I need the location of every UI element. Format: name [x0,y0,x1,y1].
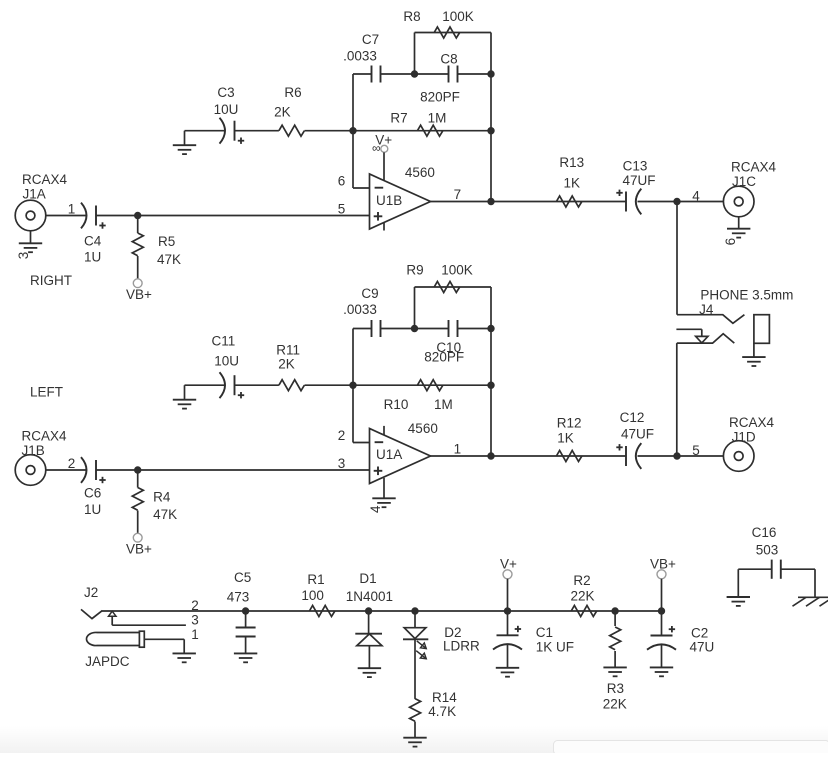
svg-text:R2: R2 [573,573,590,588]
svg-text:47UF: 47UF [621,426,654,441]
svg-text:C6: C6 [84,485,101,500]
svg-text:R7: R7 [390,110,407,125]
svg-text:22K: 22K [570,589,594,604]
svg-text:1K: 1K [564,176,581,191]
svg-text:J1C: J1C [732,174,756,189]
svg-text:47K: 47K [153,507,177,522]
svg-text:C12: C12 [620,410,645,425]
svg-text:7: 7 [454,187,462,202]
svg-text:22K: 22K [603,697,627,712]
svg-text:C2: C2 [691,626,708,641]
svg-text:R11: R11 [276,343,300,358]
svg-text:1U: 1U [84,250,101,265]
svg-text:JAPDC: JAPDC [85,654,130,669]
svg-text:C3: C3 [217,85,234,100]
svg-text:R14: R14 [432,690,457,705]
svg-text:VB+: VB+ [126,287,152,302]
svg-text:R12: R12 [557,416,582,431]
svg-text:10U: 10U [214,354,239,369]
svg-text:47U: 47U [690,640,715,655]
svg-text:R8: R8 [403,9,420,24]
svg-text:PHONE 3.5mm: PHONE 3.5mm [700,288,793,303]
svg-text:1K: 1K [557,431,574,446]
svg-text:C16: C16 [752,525,777,540]
svg-text:100: 100 [301,588,324,603]
svg-text:4.7K: 4.7K [428,704,456,719]
svg-text:47K: 47K [157,252,181,267]
svg-text:.0033: .0033 [343,302,377,317]
svg-text:J1D: J1D [732,430,756,445]
svg-text:RCAX4: RCAX4 [729,415,775,430]
svg-text:6: 6 [723,238,738,246]
svg-text:473: 473 [227,590,250,605]
svg-text:47UF: 47UF [622,173,655,188]
svg-text:503: 503 [756,543,779,558]
svg-text:J2: J2 [84,585,98,600]
svg-text:C13: C13 [623,158,648,173]
svg-text:∞: ∞ [372,141,381,155]
svg-text:R13: R13 [559,155,584,170]
svg-text:10U: 10U [214,102,239,117]
svg-text:1N4001: 1N4001 [346,589,393,604]
svg-text:100K: 100K [442,9,474,24]
svg-text:6: 6 [338,174,346,189]
svg-text:C4: C4 [84,233,102,248]
svg-text:4560: 4560 [408,421,438,436]
svg-text:U1B: U1B [376,193,402,208]
svg-text:3: 3 [338,456,346,471]
svg-text:RCAX4: RCAX4 [22,172,68,187]
svg-text:R6: R6 [284,85,301,100]
svg-text:R1: R1 [307,572,324,587]
svg-text:4: 4 [368,505,383,513]
svg-text:2: 2 [191,598,199,613]
svg-text:J4: J4 [699,302,714,317]
svg-text:1M: 1M [428,110,447,125]
svg-text:4560: 4560 [405,165,435,180]
svg-text:1M: 1M [434,397,453,412]
svg-text:1: 1 [191,627,199,642]
svg-text:.0033: .0033 [343,49,377,64]
svg-text:C8: C8 [440,52,457,67]
svg-text:2: 2 [338,428,346,443]
svg-text:C5: C5 [234,570,251,585]
svg-text:RCAX4: RCAX4 [731,159,777,174]
svg-text:2: 2 [68,456,76,471]
svg-text:RIGHT: RIGHT [30,273,72,288]
svg-text:R10: R10 [384,397,409,412]
svg-text:2K: 2K [274,105,291,120]
svg-text:C1: C1 [536,625,553,640]
svg-text:VB+: VB+ [126,541,152,556]
svg-text:J1A: J1A [23,187,46,202]
svg-text:R3: R3 [607,681,624,696]
svg-text:R5: R5 [158,234,175,249]
svg-text:820PF: 820PF [420,89,460,104]
svg-text:C11: C11 [212,334,236,349]
svg-text:2K: 2K [278,357,295,372]
svg-text:C7: C7 [362,32,379,47]
svg-text:R4: R4 [153,490,171,505]
svg-text:5: 5 [692,443,700,458]
svg-text:D1: D1 [359,571,376,586]
svg-text:J1B: J1B [22,443,45,458]
svg-text:R9: R9 [406,263,423,278]
svg-text:100K: 100K [441,263,473,278]
svg-text:1U: 1U [84,502,101,517]
svg-text:5: 5 [338,202,346,217]
svg-text:VB+: VB+ [650,557,676,572]
svg-text:LDRR: LDRR [443,638,480,653]
svg-text:RCAX4: RCAX4 [22,428,68,443]
svg-text:820PF: 820PF [424,350,464,365]
svg-text:1: 1 [68,201,76,216]
svg-text:C9: C9 [361,286,378,301]
svg-text:1: 1 [454,441,462,456]
svg-text:4: 4 [692,189,700,204]
svg-text:3: 3 [191,612,199,627]
svg-text:LEFT: LEFT [30,384,63,399]
svg-text:U1A: U1A [376,447,402,462]
svg-text:1K UF: 1K UF [536,639,574,654]
